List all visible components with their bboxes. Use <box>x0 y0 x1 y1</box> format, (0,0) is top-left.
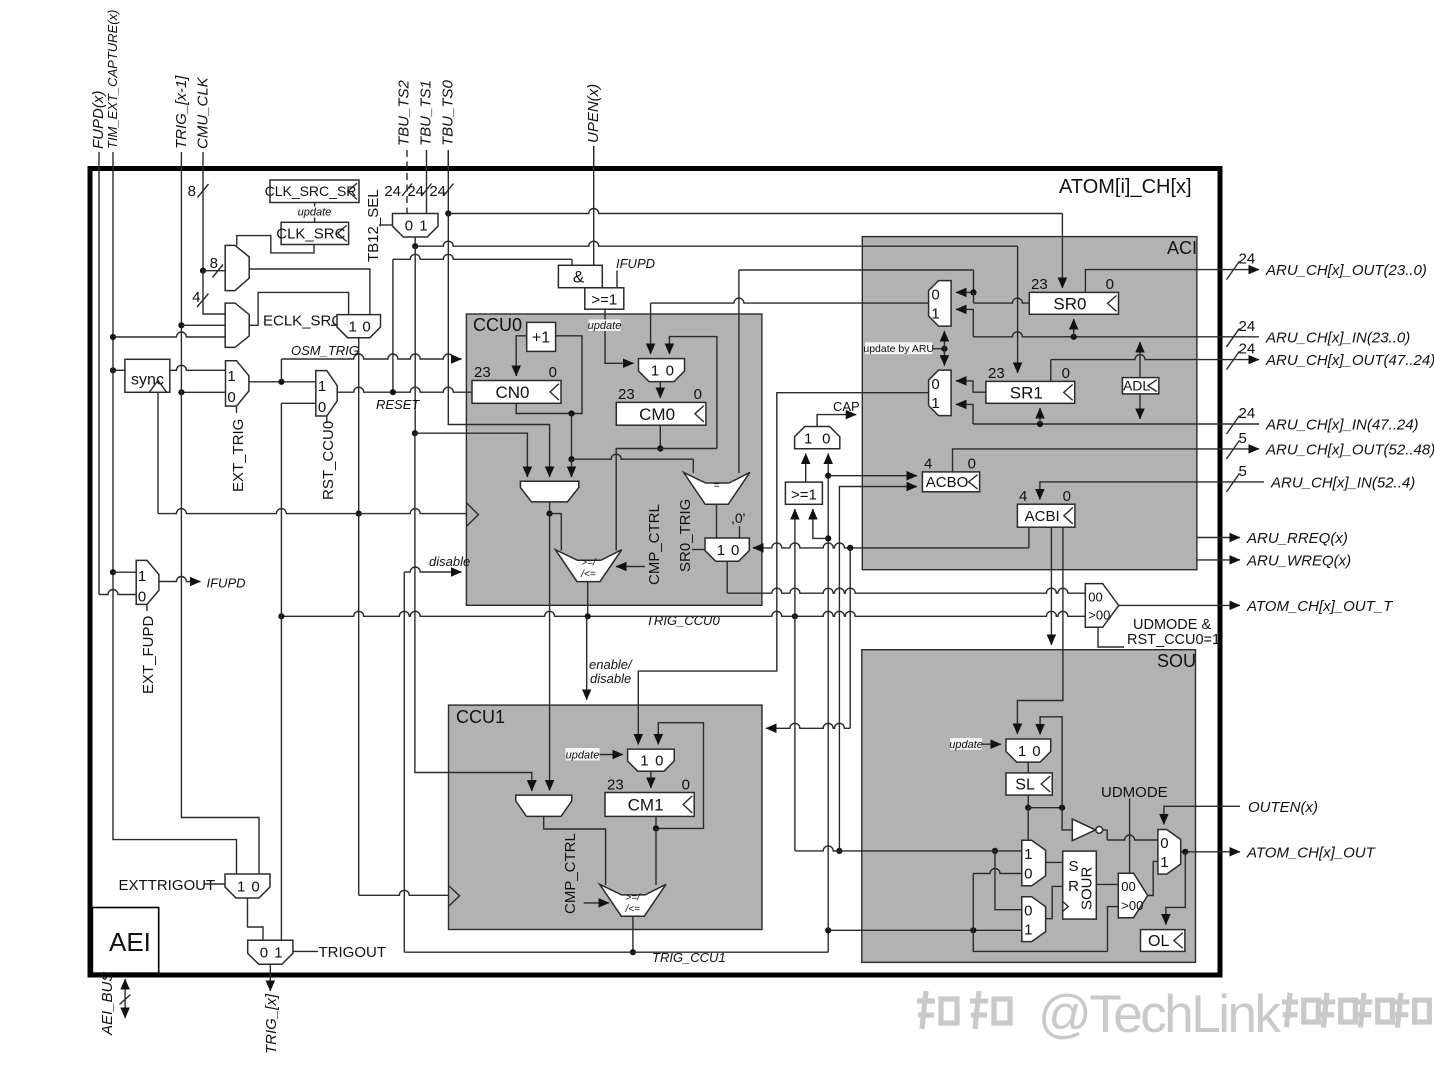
svg-text:ECLK_SRC: ECLK_SRC <box>263 313 342 330</box>
mux SOUR set 1-0 <box>1022 840 1046 886</box>
wire ACBI down v1 <box>1050 527 1052 645</box>
svg-text:24: 24 <box>1239 251 1256 268</box>
wire CCU1 mux to CM1 <box>650 771 652 788</box>
block CCU0 <box>466 314 762 605</box>
svg-text:0: 0 <box>260 945 268 962</box>
svg-text:EXT_TRIG: EXT_TRIG <box>230 419 247 492</box>
mux TRIGOUT 0-1 <box>248 940 293 964</box>
svg-text:4: 4 <box>192 289 200 306</box>
wire enable/disable to CCU1 <box>587 616 633 700</box>
svg-text:0: 0 <box>731 542 739 559</box>
svg-text:TB12_SEL: TB12_SEL <box>365 189 382 262</box>
svg-text:1: 1 <box>1024 846 1032 863</box>
svg-text:SR1: SR1 <box>1010 383 1043 402</box>
mux CCU1 update 1-0 <box>628 749 675 771</box>
svg-text:0: 0 <box>227 389 235 406</box>
svg-text:>=1: >=1 <box>791 487 817 504</box>
wire TB12 out to SR1 <box>415 241 1017 373</box>
wire TRIG_CCU0 to or <box>794 509 796 616</box>
svg-text:1: 1 <box>931 395 939 412</box>
or gate >=1 (mid) <box>785 482 822 504</box>
wire SOU mux to SL <box>1027 762 1029 773</box>
comparator CCU0 >=/<= <box>555 550 621 582</box>
svg-text:24: 24 <box>407 183 424 200</box>
svg-text:ARU_RREQ(x): ARU_RREQ(x) <box>1246 530 1348 547</box>
mux CCU0 counter compare (3-input) <box>520 481 578 502</box>
wire SL to inverter <box>1062 808 1072 830</box>
svg-text:ARU_CH[x]_IN(23..0): ARU_CH[x]_IN(23..0) <box>1265 329 1410 346</box>
wire TRIG_[x-1] <box>178 167 259 874</box>
wire ACBI to SR0_TRIG mux <box>753 527 1029 551</box>
wire L2 to mux_s <box>973 869 1022 931</box>
svg-text:0: 0 <box>666 363 674 380</box>
input label TRIG_[x-1] <box>173 75 190 167</box>
svg-text:23: 23 <box>988 365 1005 382</box>
wire mux B out to ECLK mux <box>249 292 348 325</box>
svg-text:TRIGOUT: TRIGOUT <box>319 944 387 961</box>
mux TB12_SEL 0-1 <box>393 214 439 238</box>
wire ACBI down v2 <box>1017 527 1063 734</box>
label IFUPD (top) <box>616 256 655 288</box>
wire comparator CCU0 out <box>587 582 589 617</box>
svg-text:1: 1 <box>318 378 326 395</box>
svg-text:23: 23 <box>474 364 491 381</box>
label SR0_TRIG <box>677 499 705 572</box>
svg-text:SOU: SOU <box>1157 651 1196 671</box>
svg-text:SR0: SR0 <box>1053 294 1086 313</box>
label UDMODE <box>1101 784 1168 873</box>
svg-text:0: 0 <box>1032 743 1040 760</box>
wire mux_b to SOUR R <box>1046 886 1063 918</box>
svg-text:OSM_TRIG: OSM_TRIG <box>291 343 359 358</box>
clock chevron CCU0 <box>466 503 478 527</box>
wire disable into CCU0 <box>404 554 470 572</box>
svg-text:CLK_SRC: CLK_SRC <box>276 226 345 243</box>
svg-text:ACI: ACI <box>1167 238 1197 258</box>
svg-text:4: 4 <box>924 456 932 473</box>
port ARU_WREQ(x) <box>1197 552 1351 569</box>
wire update by ARU arrows <box>941 331 947 366</box>
register CLK_SRC_SR <box>265 180 359 203</box>
label update (CCU0) <box>588 320 622 333</box>
label constant ,0' <box>731 510 745 538</box>
wire TBU_TS2 dashed <box>406 150 408 214</box>
svg-text:1: 1 <box>419 218 427 235</box>
svg-text:update: update <box>949 739 983 751</box>
wire CM1 feedback <box>656 723 704 829</box>
wire ADL down <box>1139 394 1141 419</box>
wire SR0 data to CCU0 mux <box>651 298 929 354</box>
wire ARU IN(23..0) <box>956 309 1220 340</box>
wire TRIG_CCU1 to ACBO <box>828 475 917 477</box>
register ADL <box>1122 378 1158 394</box>
label update (CLK_SRC) <box>297 203 332 223</box>
wire TBU_TS1 into mux <box>426 167 428 214</box>
arrowheads into counter mux <box>527 472 571 477</box>
wire ADL up <box>1139 342 1141 378</box>
svg-text:=: = <box>714 480 720 491</box>
svg-text:update: update <box>588 320 622 332</box>
port ARU_CH[x]_IN(52..4) <box>1220 463 1415 492</box>
svg-text:24: 24 <box>1239 405 1256 422</box>
svg-text:CM0: CM0 <box>639 405 675 424</box>
svg-text:CMP_CTRL: CMP_CTRL <box>562 833 579 914</box>
wire TIM to sync <box>110 367 125 373</box>
mux SOU update 1-0 <box>1006 739 1051 762</box>
mux A (CMU clock select upper) <box>225 245 249 290</box>
wire mux to CM0 <box>659 382 661 398</box>
wire TRIG_CCU0 to TRIGOUT <box>280 616 282 940</box>
wire TRIG_CCU1 riser <box>825 454 831 953</box>
svg-text:CCU1: CCU1 <box>456 707 505 727</box>
svg-text:,0': ,0' <box>731 510 745 526</box>
wire EXTTRIGOUT out <box>248 898 264 940</box>
svg-text:24: 24 <box>429 183 446 200</box>
input label TBU_TS2 <box>396 79 413 146</box>
svg-text:ACBO: ACBO <box>926 474 969 491</box>
svg-text:0: 0 <box>1024 865 1032 882</box>
svg-text:0: 0 <box>1024 902 1032 919</box>
module frame ATOM[i]_CH[x] <box>90 169 1220 976</box>
svg-text:00: 00 <box>1088 589 1102 604</box>
register CM0 <box>616 386 706 425</box>
svg-text:CCU0: CCU0 <box>473 315 522 335</box>
svg-text:R: R <box>1068 878 1079 895</box>
svg-text:CLK_SRC_SR: CLK_SRC_SR <box>265 183 357 199</box>
wire TIM_EXT_CAPTURE <box>110 167 237 874</box>
svg-text:0: 0 <box>968 456 976 473</box>
wire CCU1 cmp mux out <box>544 816 606 885</box>
svg-text:TIM_EXT_CAPTURE(x): TIM_EXT_CAPTURE(x) <box>105 10 120 149</box>
wire TRIG_CCU0 to RST mux <box>281 403 315 616</box>
wire SR0 out right OUT(23..0) <box>1085 270 1220 293</box>
svg-text:>=1: >=1 <box>591 292 617 309</box>
bus slashes 24 24 24 <box>384 183 453 200</box>
wire ACI mux1 to CCU1 update <box>638 393 928 745</box>
svg-text:&: & <box>573 268 585 287</box>
svg-text:AEI_BUS: AEI_BUS <box>99 972 116 1036</box>
register ACBI <box>1017 488 1075 527</box>
svg-text:0: 0 <box>931 287 939 304</box>
svg-text:ADL: ADL <box>1123 378 1150 394</box>
svg-text:0: 0 <box>931 376 939 393</box>
svg-text:0: 0 <box>251 878 259 895</box>
svg-text:S: S <box>1068 858 1078 875</box>
svg-text:ARU_WREQ(x): ARU_WREQ(x) <box>1246 552 1351 569</box>
svg-text:1: 1 <box>1018 743 1026 760</box>
svg-text:SOUR: SOUR <box>1079 866 1096 910</box>
wire TRIG_CCU0 <box>278 611 1085 619</box>
wire SR0 out left <box>956 289 1029 303</box>
wire sync to EXT_TRIG mux <box>170 365 226 370</box>
inverter NOT <box>1072 819 1102 841</box>
register CLK_SRC <box>276 222 348 244</box>
wire TRIG_CCU0 to ACBO <box>839 487 917 851</box>
svg-text:ATOM_CH[x]_OUT: ATOM_CH[x]_OUT <box>1246 844 1377 861</box>
mux CCU0 update 1-0 <box>639 359 685 382</box>
svg-text:enable/: enable/ <box>589 657 633 672</box>
svg-text:>00: >00 <box>1088 608 1110 623</box>
svg-text:0: 0 <box>1063 488 1071 505</box>
svg-text:0: 0 <box>405 218 413 235</box>
wire TB12 branch into CCU0 mux <box>415 433 528 477</box>
wire CM0 feedback to mux <box>669 337 717 449</box>
sync box <box>125 359 170 392</box>
svg-text:0: 0 <box>682 777 690 794</box>
comparator CCU1 >=/<= <box>600 884 666 916</box>
wire RESET to AND gate <box>393 254 572 392</box>
mux CCU1 compare (2-input) <box>516 786 572 816</box>
svg-text:CAP: CAP <box>833 399 860 414</box>
svg-text:0: 0 <box>138 589 146 606</box>
svg-text:SR0_TRIG: SR0_TRIG <box>677 499 694 572</box>
svg-text:0: 0 <box>655 753 663 770</box>
svg-text:24: 24 <box>1239 318 1256 335</box>
wire TIM to EXT_FUPD <box>113 571 136 573</box>
wire out to OL <box>1166 852 1185 925</box>
wire TRIG_CCU1 <box>404 916 828 965</box>
label EXT_FUPD <box>140 604 157 694</box>
mux EXT_FUPD 1-0 <box>136 560 159 605</box>
wire ARU IN(52..4) to ACBI <box>1040 482 1220 500</box>
svg-text:ARU_CH[x]_IN(47..24): ARU_CH[x]_IN(47..24) <box>1265 417 1419 434</box>
wire L1 into SOU <box>795 846 1022 851</box>
label CMP_CTRL (CCU0) <box>616 504 663 585</box>
register CM1 <box>605 777 694 817</box>
svg-text:+1: +1 <box>532 330 550 347</box>
svg-text:0: 0 <box>1106 276 1114 293</box>
wire TRIG_CCU1 to disable <box>403 572 405 952</box>
svg-text:TRIG_CCU1: TRIG_CCU1 <box>652 950 726 965</box>
svg-text:SL: SL <box>1015 777 1035 794</box>
label RST_CCU0 <box>320 416 337 500</box>
svg-text:ARU_CH[x]_OUT(52..48): ARU_CH[x]_OUT(52..48) <box>1265 441 1434 458</box>
mux ECLK_SRC 1-0 <box>337 315 381 338</box>
label UDMODE & RST_CCU0=1 <box>1098 617 1220 648</box>
wire L2 into SOU <box>828 927 1022 933</box>
mux EXTTRIGOUT 1-0 <box>119 874 271 898</box>
wire ACBO out OUT(52..48) <box>953 449 1220 472</box>
input label UPEN(x) <box>585 84 602 167</box>
mux SOUR reset 0-1 <box>1022 897 1046 942</box>
wire EXT_TRIG out <box>249 379 316 385</box>
wire TBU_TS0 to SR0 (y213) <box>448 209 1062 289</box>
wire UPEN into AND <box>593 146 595 265</box>
svg-text:24: 24 <box>1239 341 1256 358</box>
mux EXT_TRIG 1-0 <box>226 361 249 406</box>
svg-text:1: 1 <box>274 945 282 962</box>
wire TRIG_[x] out <box>263 964 280 1054</box>
svg-text:0: 0 <box>318 399 326 416</box>
label TB12_SEL <box>365 189 393 262</box>
svg-text:0: 0 <box>549 364 557 381</box>
wire counter mux out <box>547 502 562 791</box>
svg-text:>=/: >=/ <box>581 558 597 569</box>
mux ACI lower 0-1 <box>929 370 952 416</box>
wire L2 to bottom <box>973 907 1118 952</box>
svg-text:1: 1 <box>1160 854 1168 871</box>
svg-text:1: 1 <box>717 542 725 559</box>
port OUTEN(x) <box>1164 799 1318 825</box>
svg-text:TRIG_[x-1]: TRIG_[x-1] <box>173 75 190 149</box>
or gate >=1 (update) <box>585 288 624 309</box>
wire ACBI into CCU1 <box>766 548 850 728</box>
svg-text:disable: disable <box>590 671 631 686</box>
wire TIM to mux B <box>113 332 225 337</box>
svg-text:5: 5 <box>1239 430 1247 447</box>
svg-text:1: 1 <box>931 306 939 323</box>
wire CM0 out <box>616 425 717 550</box>
wire SL feedback to mux <box>1040 717 1062 808</box>
svg-text:1: 1 <box>237 878 245 895</box>
mux B (ECLK source select lower) <box>225 303 249 347</box>
and gate & <box>558 265 602 287</box>
svg-text:1: 1 <box>651 363 659 380</box>
wire TRIG_CCU1 to or <box>813 509 828 538</box>
svg-text:TBU_TS1: TBU_TS1 <box>418 80 435 146</box>
wire equal out to SR0_TRIG mux <box>716 504 718 538</box>
wire TB12 out down to CCU1 <box>412 246 532 790</box>
svg-text:update: update <box>298 207 332 219</box>
svg-text:CMP_CTRL: CMP_CTRL <box>646 504 663 585</box>
svg-text:ATOM_CH[x]_OUT_T: ATOM_CH[x]_OUT_T <box>1246 598 1394 615</box>
svg-text:AEI: AEI <box>109 927 151 957</box>
svg-text:CN0: CN0 <box>495 383 529 402</box>
wire RESET <box>337 387 472 412</box>
svg-text:TBU_TS2: TBU_TS2 <box>396 79 413 146</box>
wire SR0_TRIG out <box>727 561 1085 593</box>
wire mux A out to ECLK mux <box>249 269 370 315</box>
wire TB12 mux out <box>412 237 418 249</box>
mux ACI upper 0-1 <box>929 281 952 327</box>
svg-text:UPEN(x): UPEN(x) <box>585 84 602 143</box>
svg-text:1: 1 <box>640 753 648 770</box>
wire CN0 to equal comparator <box>572 454 694 473</box>
svg-text:TRIG_[x]: TRIG_[x] <box>263 993 280 1054</box>
wire CLK_SRC to mux A <box>237 236 314 253</box>
svg-text:OUTEN(x): OUTEN(x) <box>1248 799 1318 816</box>
wire AND stub <box>571 259 573 265</box>
svg-text:1: 1 <box>348 319 356 336</box>
bus slash 8 (top CMU) <box>188 183 209 200</box>
svg-text:0: 0 <box>694 386 702 403</box>
svg-text:ARU_CH[x]_OUT(23..0): ARU_CH[x]_OUT(23..0) <box>1265 262 1427 279</box>
wire TBU_TS0 down to CCU0 <box>445 150 549 477</box>
svg-text:RST_CCU0=1: RST_CCU0=1 <box>1127 632 1220 648</box>
mux SOU out 00/>00 <box>1118 873 1147 917</box>
svg-text:0: 0 <box>362 319 370 336</box>
wire ARU IN(47..24) <box>956 404 1220 427</box>
port ARU_CH[x]_OUT(52..48) <box>1220 430 1434 459</box>
svg-text:0: 0 <box>1160 835 1168 852</box>
register CN0 <box>472 364 561 403</box>
register SL <box>1006 773 1052 795</box>
input label TBU_TS0 <box>440 79 457 167</box>
port ARU_CH[x]_IN(47..24) <box>1220 405 1419 434</box>
svg-text:/<=: /<= <box>580 569 596 580</box>
port ATOM_CH[x]_OUT <box>1181 844 1377 861</box>
label update (CCU1) <box>566 748 624 762</box>
wire L1 to mux_b <box>995 851 1022 910</box>
block ACI <box>862 237 1197 570</box>
wire TRIG to mux B <box>181 324 225 326</box>
wire OSM_TRIG <box>281 343 461 382</box>
mux output 0-1 <box>1158 830 1181 875</box>
clock chevron CCU1 <box>449 886 460 907</box>
svg-text:@TechLink: @TechLink <box>1038 985 1281 1044</box>
bus AEI_BUS <box>99 972 131 1036</box>
wire IFUPD out <box>159 576 246 591</box>
svg-text:0: 0 <box>1062 365 1070 382</box>
wire outT mux out <box>1119 604 1220 606</box>
port ARU_RREQ(x) <box>1197 530 1348 547</box>
svg-text:/<=: /<= <box>624 904 640 915</box>
svg-text:ARU_CH[x]_OUT(47..24): ARU_CH[x]_OUT(47..24) <box>1265 352 1434 369</box>
label CMP_CTRL (CCU1) <box>562 833 609 914</box>
wire clock to CCU1 <box>359 514 449 896</box>
wire SR0 out to equal <box>739 270 974 473</box>
svg-text:00: 00 <box>1121 879 1135 894</box>
svg-text:CM1: CM1 <box>628 795 664 814</box>
port ARU_CH[x]_IN(23..0) <box>1220 318 1410 347</box>
wire or out to CAP mux <box>805 454 807 483</box>
wire SOUR to SOU mux <box>1096 883 1118 885</box>
register OL <box>1141 930 1185 952</box>
input label TIM_EXT_CAPTURE(x) <box>105 10 120 167</box>
svg-text:disable: disable <box>429 554 470 569</box>
svg-text:>00: >00 <box>1121 898 1143 913</box>
wire SR1 out right OUT(47..24) <box>1051 355 1220 382</box>
register SOUR <box>1063 851 1097 919</box>
port ARU_CH[x]_OUT(47..24) <box>1220 341 1434 370</box>
wire SR1 out left <box>956 381 986 392</box>
svg-text:ARU_CH[x]_IN(52..4): ARU_CH[x]_IN(52..4) <box>1270 474 1415 491</box>
label TRIGOUT <box>293 944 386 961</box>
wire CN0 loop <box>516 336 582 417</box>
wire TRIG_CCU0 to SOU <box>795 616 998 854</box>
mux ATOM_CH out_T 00/>00 <box>1085 584 1118 628</box>
register ACBO <box>922 456 979 492</box>
svg-text:5: 5 <box>1239 463 1247 480</box>
svg-text:TRIG_CCU0: TRIG_CCU0 <box>646 613 720 628</box>
mux RST_CCU0 1-0 <box>316 371 337 416</box>
register SR0 <box>1029 276 1118 314</box>
svg-text:IFUPD: IFUPD <box>207 576 246 591</box>
svg-text:24: 24 <box>384 183 401 200</box>
input label FUPD(x) <box>90 91 107 167</box>
wire inverter out <box>1103 830 1158 840</box>
mux CAP 1-0 <box>795 427 840 449</box>
svg-text:23: 23 <box>607 777 624 794</box>
svg-text:OL: OL <box>1148 933 1169 950</box>
label update (SOU) <box>949 738 1001 751</box>
wire mux_s to SOUR S <box>1046 861 1063 863</box>
svg-text:23: 23 <box>1031 276 1048 293</box>
svg-text:CMU_CLK: CMU_CLK <box>195 76 212 149</box>
wire SL out <box>1025 795 1065 840</box>
svg-text:RESET: RESET <box>376 397 420 412</box>
register SR1 <box>986 365 1075 403</box>
svg-text:UDMODE &: UDMODE & <box>1133 617 1211 633</box>
svg-text:1: 1 <box>138 568 146 585</box>
wire CM1 out <box>653 816 659 885</box>
svg-text:4: 4 <box>1019 488 1027 505</box>
svg-text:TBU_TS0: TBU_TS0 <box>440 79 457 146</box>
svg-text:UDMODE: UDMODE <box>1101 784 1168 801</box>
bus slash 4 (mux B input) <box>192 289 208 307</box>
wire FUPD(x) <box>99 167 136 595</box>
svg-text:1: 1 <box>227 368 235 385</box>
